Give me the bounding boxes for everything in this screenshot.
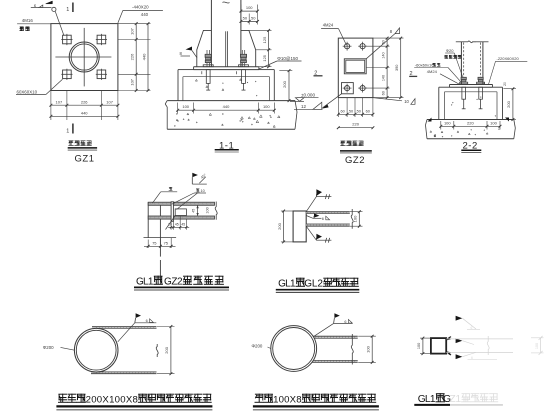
label Φ200 detail7: [43, 345, 75, 350]
anchor bolt M24 2 GZ2: [358, 42, 367, 51]
anchor bolt nut stack 1 2-2: [460, 77, 468, 83]
callout base plate -220X60X20 2-2: [489, 56, 528, 84]
callout Φ20 2-2: [445, 48, 463, 77]
svg-text:45: 45: [192, 209, 196, 213]
leader arrows at beam corners detail9: [446, 337, 451, 355]
column centerline horizontal GZ1: [55, 56, 111, 58]
pipe column wall outer circle GZ1: [69, 42, 99, 72]
title block GZ1: [68, 141, 97, 165]
label 4M16 anchor bolts GZ1: [17, 18, 50, 31]
tube column outer wall GZ2: [344, 59, 366, 74]
svg-text:6: 6: [471, 326, 473, 330]
dimension 100 beam detail8: [358, 335, 376, 364]
dimension 200 beam GL1 GL1-GL2: [277, 210, 293, 244]
dimension right overall 440 GZ1: [141, 22, 149, 92]
dimension chain right 50/140/140/60 GZ2: [366, 37, 404, 99]
dimension slot 45/100 GL1-GZ2: [192, 205, 210, 215]
dimension right 125/125 stiffener 1-1: [249, 29, 272, 68]
svg-text:140: 140: [381, 52, 385, 58]
title rect tube 200X100X8 to pipe column: [56, 394, 212, 410]
svg-text:100: 100: [263, 104, 270, 109]
weld callout 6 detail8: [313, 313, 352, 337]
svg-text:GZ1: GZ1: [75, 153, 95, 164]
dimension 200 pedestal 2-2: [503, 82, 516, 121]
anchor bolt embedded sleeve 1 1-1: [206, 70, 210, 91]
svg-text:100: 100: [535, 343, 539, 349]
pipe column wall right 1-1: [240, 0, 242, 67]
beam square tube 100X8 walls: [303, 336, 358, 362]
dimension right overall 390 GZ2: [395, 37, 402, 99]
concrete hatch slab 1-1: [174, 79, 280, 127]
beam GL2 tube walls GL1-GL2: [306, 212, 350, 227]
section mark 2 left GZ2: [314, 70, 323, 76]
dimension chain bottom 60/50/50/60 GZ2: [337, 98, 374, 117]
svg-text:100: 100: [417, 343, 421, 349]
svg-text:GL2: GL2: [304, 278, 323, 289]
base plate -440X20 side view 1-1: [194, 67, 259, 70]
anchor bolt M16 with nuts 1 1-1: [203, 50, 213, 67]
svg-text:-220X60X20: -220X60X20: [497, 56, 520, 61]
beam GL1 section GL1-GL2: [293, 211, 306, 242]
svg-text:60: 60: [381, 91, 385, 95]
callout 4M24 GZ2: [321, 23, 346, 45]
svg-text:1: 1: [66, 7, 69, 13]
callout 4M24 2-2: [427, 69, 460, 84]
anchor bolt embedded sleeve 2 1-1: [242, 70, 246, 91]
svg-text:140: 140: [381, 75, 385, 81]
svg-text:GL1: GL1: [418, 394, 436, 405]
dimension chain right 107/226/107 GZ1: [118, 22, 151, 92]
weld callout top GL1-GL2: [306, 189, 331, 211]
svg-text:4M24: 4M24: [323, 23, 334, 28]
tube column inner wall GZ2: [346, 60, 365, 72]
svg-text:220: 220: [467, 121, 474, 126]
stiffener right 1-1: [241, 30, 256, 66]
pipe column inner circle detail7: [76, 330, 116, 370]
svg-text:75: 75: [152, 240, 157, 245]
callout 12 slope 1-1: [294, 102, 323, 109]
svg-text:220: 220: [352, 122, 359, 127]
anchor bolt hidden right 2-2: [480, 43, 482, 78]
svg-text:12: 12: [301, 104, 307, 109]
anchor bolt nut stack 2 2-2: [477, 77, 485, 83]
dimension bottom overall 440 GZ1: [50, 111, 120, 118]
svg-text:100X8: 100X8: [273, 394, 302, 405]
stiffener left 1-1: [197, 30, 212, 66]
callout -60x60x10 washer block 2-2: [414, 62, 461, 82]
svg-text:226: 226: [129, 53, 134, 60]
svg-text:107: 107: [56, 99, 63, 104]
anchor bolt M24 4 GZ2: [343, 84, 352, 93]
column break line top 2-2: [456, 41, 489, 43]
weld callout left GL1-GZ2: [152, 187, 177, 203]
svg-text:6: 6: [322, 217, 324, 221]
dimension 75/75 GL1-GZ2: [144, 238, 177, 248]
embedded anchor bolt 1 2-2: [462, 87, 466, 109]
svg-text:-60x60x10: -60x60x10: [415, 62, 434, 67]
svg-text:100: 100: [182, 104, 189, 109]
svg-text:4M24: 4M24: [427, 69, 438, 74]
beam break detail7: [156, 344, 158, 357]
anchor bolt M16 with nuts 2 1-1: [239, 50, 249, 67]
svg-text:440: 440: [141, 53, 146, 60]
concrete pedestal 1-1: [178, 70, 274, 101]
concrete hatch 2-2: [430, 97, 499, 137]
dimension 100/220/100 slab 2-2: [439, 121, 501, 130]
title block 1-1: [215, 140, 239, 152]
beam GL2 break GL1-GL2: [351, 209, 353, 229]
column centerline vertical GZ1: [83, 28, 85, 87]
svg-text:75: 75: [164, 240, 169, 245]
svg-text:50: 50: [349, 109, 353, 113]
weld callout 10 GZ2: [373, 98, 415, 105]
anchor bolt hidden left 2-2: [463, 43, 465, 78]
svg-text:200: 200: [282, 80, 287, 87]
beam GL1 bottom wall (cut) GL1-GZ2: [148, 216, 214, 219]
svg-text:GL1: GL1: [278, 278, 296, 289]
weld callout 10 GL1-GZ2: [172, 189, 206, 210]
svg-text:6: 6: [146, 319, 148, 323]
dimension 100 detail9: [417, 337, 431, 355]
label Φ200 detail8: [252, 344, 271, 349]
svg-text:6: 6: [344, 320, 346, 324]
svg-text:20: 20: [503, 82, 507, 86]
title block 2-2: [461, 141, 481, 153]
svg-text:10: 10: [404, 99, 409, 104]
svg-text:Φ200: Φ200: [43, 345, 54, 350]
dimension 100/440/100 slab 1-1: [176, 103, 275, 114]
dimension 100 and 50/50 top 1-1: [240, 5, 259, 25]
title GL1-GZ2 connection: [134, 276, 229, 290]
label chemical anchor 2-2: [445, 55, 462, 58]
pipe column outer circle detail8: [271, 326, 317, 372]
section mark 2 right GZ2: [409, 71, 417, 77]
tube column wall right 2-2: [482, 42, 484, 85]
svg-text:50: 50: [243, 16, 248, 21]
svg-text:100: 100: [246, 5, 253, 10]
svg-text:1: 1: [66, 129, 69, 135]
dimension chain bottom 107/226/107 GZ1: [50, 91, 120, 121]
svg-text:107: 107: [129, 27, 134, 34]
svg-text:GL1: GL1: [136, 276, 154, 287]
pipe column inner circle detail8: [273, 328, 315, 370]
svg-text:200: 200: [506, 100, 511, 107]
section mark 1 bottom GZ1: [66, 124, 73, 135]
svg-text:440: 440: [81, 111, 88, 116]
svg-text:107: 107: [129, 78, 134, 85]
dimension 200 pedestal 1-1: [279, 69, 292, 102]
svg-text:GZ2: GZ2: [164, 276, 183, 287]
dimension 10/45/45 GL1-GZ2: [168, 216, 189, 230]
svg-text:440: 440: [141, 12, 149, 17]
svg-text:±0.000: ±0.000: [301, 93, 315, 98]
callout rebar Φ10@150 1-1: [258, 56, 302, 70]
washer box plate GZ2: [342, 83, 354, 94]
base plate GZ1 (440x440 plan): [51, 24, 118, 91]
svg-text:200: 200: [164, 346, 169, 353]
title block GZ2: [340, 141, 372, 166]
svg-text:60: 60: [366, 109, 370, 113]
svg-text:Φ200: Φ200: [252, 344, 263, 349]
svg-text:50: 50: [381, 40, 385, 44]
svg-text:-440X20: -440X20: [132, 5, 149, 10]
faded beam lines detail9: [446, 318, 543, 360]
svg-text:60X60X10: 60X60X10: [17, 89, 38, 94]
foundation slab 2-2: [426, 118, 516, 139]
pipe column wall inner circle GZ1: [71, 44, 97, 70]
svg-text:45: 45: [175, 223, 179, 227]
svg-text:100: 100: [444, 121, 451, 126]
weld callout bottom GL1-GL2: [306, 226, 331, 242]
svg-text:440: 440: [223, 104, 230, 109]
anchor bolt M16 washer plate 2 GZ1: [96, 34, 107, 45]
level symbol ±0.000 1-1: [290, 93, 319, 102]
beam break GL1-GZ2: [215, 202, 217, 220]
weld flag 45deg bevel GL1-GZ2: [192, 173, 207, 184]
weld flag washer box GZ2: [322, 94, 342, 109]
svg-text:6: 6: [34, 4, 37, 9]
title GL1-GL2 connection: [276, 278, 360, 293]
weld flag 8 stiffener 1-1: [180, 47, 198, 58]
connection slot plate GL1-GZ2: [175, 209, 186, 216]
weld callout middle 6 GL1-GL2: [306, 213, 329, 221]
pipe column wall left 1-1: [210, 0, 212, 67]
tube column wall left 2-2: [460, 42, 462, 85]
svg-text:Φ10@150: Φ10@150: [277, 56, 298, 61]
callout 60X60X10 washer GZ1: [16, 79, 63, 94]
dimension bottom overall 220 GZ2: [337, 122, 374, 129]
svg-text:200: 200: [277, 222, 282, 229]
svg-text:125: 125: [262, 54, 267, 61]
column centerline GL1-GZ2: [159, 202, 161, 284]
anchor bolt M16 washer plate 1 GZ1: [61, 34, 72, 45]
svg-text:Z1: Z1: [449, 394, 461, 405]
svg-text:125: 125: [262, 36, 267, 43]
plate callout -440X20 with 440 GZ1: [118, 5, 163, 23]
svg-text:6: 6: [471, 356, 473, 360]
svg-text:200X100X8: 200X100X8: [86, 394, 138, 405]
svg-text:4M16: 4M16: [22, 18, 34, 23]
column edge left GL1-GZ2: [147, 202, 149, 237]
svg-text:100: 100: [353, 215, 358, 222]
svg-text:100: 100: [490, 121, 497, 126]
weld symbol 6 with flag and circle GZ1: [31, 1, 64, 36]
weld callout 6 detail7: [118, 313, 157, 342]
anchor bolt M16 washer plate 4 GZ1: [96, 69, 107, 80]
svg-text:8: 8: [180, 51, 183, 56]
anchor bolt M24 1 GZ2: [343, 42, 352, 51]
base plate side view 2-2: [450, 85, 493, 88]
svg-text:107: 107: [106, 99, 113, 104]
dimension 200 beam detail7: [157, 325, 175, 375]
section mark 1 top GZ1: [66, 3, 73, 14]
embedded anchor bolt 2 2-2: [479, 87, 483, 109]
svg-text:60: 60: [340, 109, 344, 113]
dimension 100 beam GL2 GL1-GL2: [350, 210, 363, 227]
weld callout 8 GZ2: [366, 28, 399, 59]
leader to slot GL1-GZ2: [166, 216, 176, 230]
anchor bolt M16 washer plate 3 GZ1: [61, 69, 72, 80]
svg-text:226: 226: [81, 99, 88, 104]
svg-text:50: 50: [357, 109, 361, 113]
beam GL1 section detail9: [431, 338, 446, 354]
end plate GL1-GZ2: [171, 202, 173, 222]
pipe column top break 1-1: [223, 2, 230, 3]
base plate GZ2 (220x390 plan): [338, 38, 373, 98]
svg-text:390: 390: [395, 65, 399, 71]
title GL1 connection (faded): [414, 393, 503, 405]
foundation slab outline 1-1: [165, 101, 297, 130]
svg-text:100: 100: [365, 345, 370, 352]
svg-text:Φ20: Φ20: [446, 48, 454, 53]
svg-text:8: 8: [390, 29, 393, 34]
beam rect tube 200X100X8 walls: [91, 327, 157, 374]
title square tube 100X8 to pipe column: [253, 394, 379, 410]
beam break detail8: [351, 334, 353, 365]
pipe column outer circle detail7: [74, 328, 118, 372]
weld flags detail9: [456, 316, 463, 359]
svg-text:100: 100: [205, 207, 209, 213]
center gusset plate 1-1: [226, 31, 228, 66]
concrete pedestal 2-2: [439, 87, 503, 119]
svg-text:10: 10: [201, 189, 205, 193]
beam GL1 top wall (cut) GL1-GZ2: [148, 202, 214, 205]
svg-text:45: 45: [181, 223, 185, 227]
anchor bolt M24 3 GZ2: [358, 84, 367, 93]
svg-text:GZ2: GZ2: [345, 155, 365, 166]
svg-text:50: 50: [251, 16, 256, 21]
